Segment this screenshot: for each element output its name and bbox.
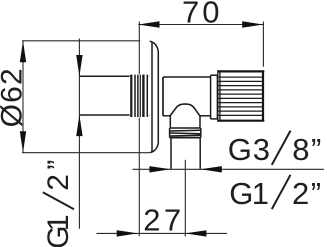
svg-text:8”: 8”	[292, 132, 323, 167]
inlet pipe	[79, 76, 149, 115]
handle	[218, 70, 265, 121]
outlet dome	[170, 104, 200, 116]
dimension 27	[97, 203, 228, 238]
svg-text:Ø62: Ø62	[0, 67, 29, 127]
bonnet collar	[211, 75, 218, 119]
outlet thread	[170, 128, 201, 138]
wall flange face line (also extension for 70 and 27 dims)	[138, 22, 140, 237]
svg-text:2”: 2”	[42, 155, 75, 191]
svg-text:70: 70	[182, 0, 222, 30]
svg-text:2”: 2”	[292, 176, 323, 211]
inlet thread hatch	[130, 74, 150, 118]
valve body	[163, 77, 211, 116]
svg-text:G3: G3	[228, 132, 271, 167]
outlet centerline	[184, 160, 186, 237]
svg-text:27: 27	[143, 203, 184, 238]
outlet hex section	[170, 116, 200, 128]
handle knurl lines	[218, 77, 264, 115]
dimension 70	[138, 0, 263, 67]
label G3/8 and G1/2 outlet (right)	[133, 131, 325, 211]
svg-text:G1: G1	[229, 176, 268, 211]
dimension Ø62	[0, 41, 150, 153]
dimension G1/2 inlet (left)	[42, 39, 83, 247]
outlet pipe	[171, 138, 200, 169]
rosette bell	[150, 41, 159, 152]
